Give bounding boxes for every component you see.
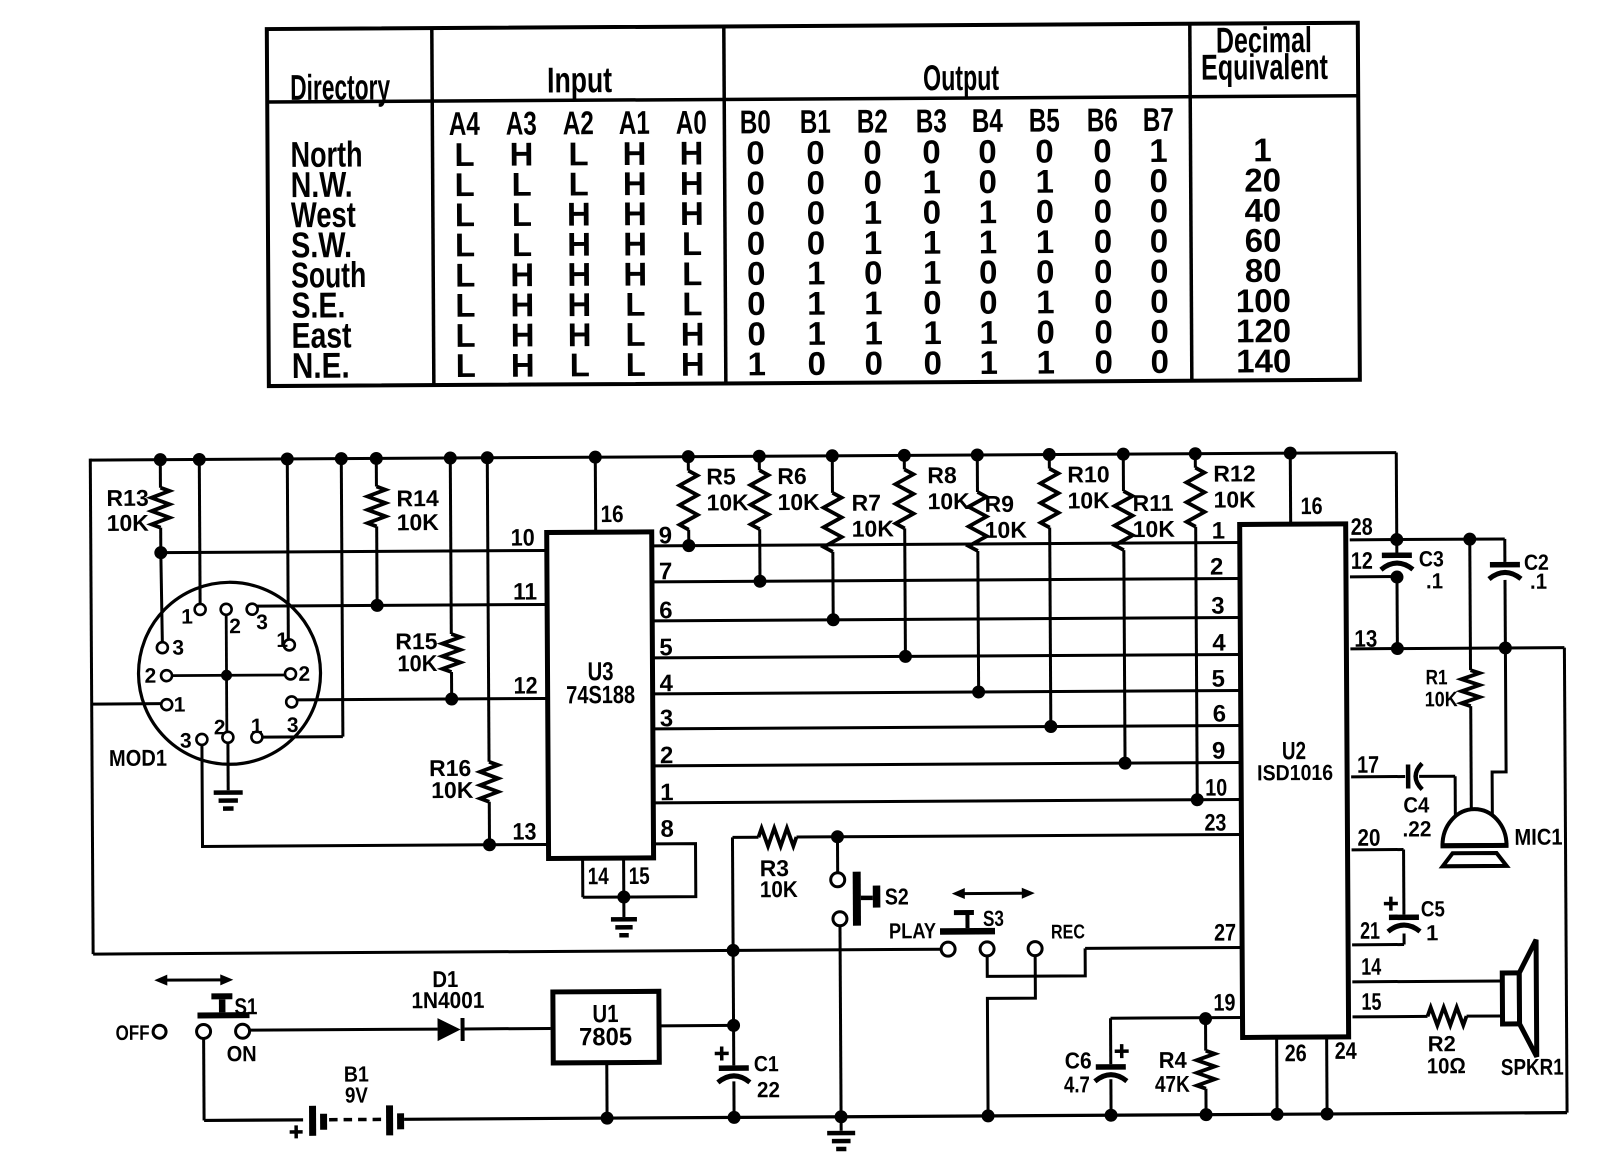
svg-text:R8: R8: [927, 462, 957, 488]
svg-text:0: 0: [923, 344, 942, 381]
svg-text:22: 22: [757, 1078, 780, 1103]
svg-text:L: L: [626, 346, 646, 383]
svg-text:3: 3: [180, 730, 192, 753]
svg-text:3: 3: [1211, 593, 1225, 620]
svg-text:6: 6: [1213, 701, 1227, 728]
svg-text:R4: R4: [1159, 1047, 1188, 1073]
svg-text:10K: 10K: [431, 777, 474, 803]
svg-text:R10: R10: [1067, 461, 1109, 487]
svg-text:10K: 10K: [1133, 516, 1176, 542]
svg-text:1: 1: [1426, 920, 1438, 945]
svg-text:C4: C4: [1403, 794, 1429, 818]
svg-text:10K: 10K: [1067, 487, 1110, 513]
svg-text:C6: C6: [1065, 1047, 1092, 1073]
svg-text:10: 10: [511, 523, 535, 550]
svg-text:13: 13: [512, 817, 536, 844]
svg-text:47K: 47K: [1155, 1072, 1191, 1097]
svg-text:11: 11: [513, 578, 537, 605]
svg-text:2: 2: [229, 615, 241, 638]
svg-text:2: 2: [298, 663, 310, 686]
svg-text:R2: R2: [1428, 1031, 1456, 1056]
svg-text:10K: 10K: [397, 509, 440, 535]
svg-text:R12: R12: [1213, 460, 1255, 486]
svg-text:0: 0: [1094, 343, 1113, 380]
svg-text:10K: 10K: [760, 876, 798, 902]
svg-text:REC: REC: [1051, 921, 1085, 943]
svg-text:10K: 10K: [706, 489, 749, 515]
svg-text:10K: 10K: [777, 489, 820, 515]
svg-text:13: 13: [1354, 625, 1377, 652]
svg-text:20: 20: [1357, 824, 1380, 851]
svg-text:10K: 10K: [1213, 486, 1256, 512]
svg-text:4: 4: [660, 670, 674, 697]
svg-text:R11: R11: [1132, 490, 1173, 516]
svg-text:27: 27: [1214, 919, 1236, 946]
svg-text:OFF: OFF: [116, 1022, 150, 1045]
svg-text:C5: C5: [1421, 897, 1445, 922]
svg-text:S1: S1: [234, 994, 257, 1019]
svg-text:MIC1: MIC1: [1514, 823, 1562, 850]
svg-text:Directory: Directory: [290, 68, 390, 108]
svg-text:1: 1: [1036, 344, 1055, 381]
svg-text:5: 5: [1211, 666, 1225, 693]
svg-text:12: 12: [514, 671, 538, 698]
svg-text:15: 15: [1361, 989, 1381, 1015]
svg-text:12: 12: [1351, 547, 1373, 574]
svg-text:1: 1: [174, 694, 186, 717]
svg-text:Output: Output: [923, 59, 999, 99]
svg-text:9: 9: [659, 522, 673, 549]
svg-text:1: 1: [181, 605, 193, 628]
svg-text:MOD1: MOD1: [109, 744, 167, 771]
svg-text:ON: ON: [227, 1042, 257, 1066]
svg-text:10K: 10K: [1425, 688, 1458, 712]
svg-text:1: 1: [1212, 518, 1226, 545]
svg-text:10K: 10K: [852, 515, 895, 541]
svg-text:5: 5: [659, 634, 673, 661]
svg-text:R7: R7: [851, 490, 881, 516]
svg-text:1: 1: [747, 345, 766, 382]
svg-text:17: 17: [1357, 751, 1379, 778]
svg-text:7805: 7805: [579, 1023, 632, 1051]
svg-text:74S188: 74S188: [566, 681, 635, 709]
svg-text:8: 8: [660, 816, 674, 843]
svg-text:3: 3: [256, 611, 268, 634]
svg-text:10K: 10K: [107, 510, 150, 536]
svg-text:10K: 10K: [985, 517, 1028, 543]
svg-text:0: 0: [1150, 343, 1169, 380]
svg-text:R13: R13: [106, 485, 148, 511]
svg-text:N.E.: N.E.: [292, 346, 350, 387]
svg-text:1: 1: [660, 779, 674, 806]
svg-text:SPKR1: SPKR1: [1501, 1055, 1564, 1080]
svg-text:26: 26: [1285, 1039, 1307, 1066]
svg-text:23: 23: [1204, 809, 1226, 836]
svg-text:28: 28: [1351, 513, 1373, 540]
svg-text:H: H: [511, 347, 535, 384]
svg-text:7: 7: [659, 558, 673, 585]
svg-text:3: 3: [660, 705, 674, 732]
svg-text:3: 3: [172, 637, 184, 660]
svg-text:16: 16: [1300, 492, 1322, 519]
svg-text:.1: .1: [1530, 570, 1547, 594]
svg-text:S2: S2: [885, 884, 909, 910]
svg-text:1: 1: [276, 629, 288, 652]
svg-text:2: 2: [214, 716, 226, 739]
svg-text:C3: C3: [1419, 547, 1444, 571]
svg-text:.1: .1: [1426, 570, 1443, 594]
svg-text:14: 14: [1361, 954, 1381, 980]
svg-text:L: L: [570, 346, 590, 383]
svg-text:16: 16: [601, 501, 624, 528]
svg-text:10Ω: 10Ω: [1427, 1054, 1466, 1078]
svg-text:2: 2: [144, 665, 156, 688]
svg-text:19: 19: [1213, 989, 1235, 1016]
svg-text:.22: .22: [1402, 817, 1431, 842]
svg-text:4: 4: [1212, 630, 1226, 657]
svg-text:10K: 10K: [927, 488, 970, 514]
svg-text:H: H: [681, 346, 705, 383]
svg-text:6: 6: [659, 597, 673, 624]
svg-text:10: 10: [1205, 774, 1227, 801]
svg-text:R1: R1: [1425, 667, 1447, 690]
svg-text:14: 14: [588, 862, 609, 890]
svg-text:S3: S3: [983, 907, 1004, 932]
svg-text:0: 0: [807, 345, 826, 382]
svg-text:10K: 10K: [397, 651, 437, 677]
svg-text:21: 21: [1360, 918, 1380, 944]
svg-text:2: 2: [660, 742, 674, 769]
svg-text:Input: Input: [547, 59, 613, 100]
svg-text:R5: R5: [706, 463, 736, 489]
svg-text:Equivalent: Equivalent: [1201, 46, 1328, 87]
svg-text:24: 24: [1335, 1037, 1358, 1064]
svg-text:C1: C1: [754, 1052, 779, 1076]
svg-text:PLAY: PLAY: [889, 920, 937, 944]
svg-text:R9: R9: [984, 491, 1014, 517]
svg-text:0: 0: [864, 345, 883, 382]
svg-text:2: 2: [1210, 554, 1224, 581]
svg-text:4.7: 4.7: [1064, 1073, 1090, 1098]
svg-text:ISD1016: ISD1016: [1257, 761, 1333, 786]
svg-text:140: 140: [1236, 342, 1291, 379]
svg-text:R6: R6: [777, 463, 807, 489]
svg-text:1: 1: [979, 344, 998, 381]
svg-text:9V: 9V: [345, 1083, 368, 1108]
svg-text:3: 3: [287, 714, 299, 737]
svg-text:9: 9: [1212, 738, 1226, 765]
svg-text:15: 15: [629, 862, 650, 890]
svg-text:1N4001: 1N4001: [411, 987, 484, 1014]
svg-text:R14: R14: [396, 485, 439, 511]
svg-text:L: L: [456, 347, 476, 384]
svg-text:1: 1: [251, 715, 263, 738]
